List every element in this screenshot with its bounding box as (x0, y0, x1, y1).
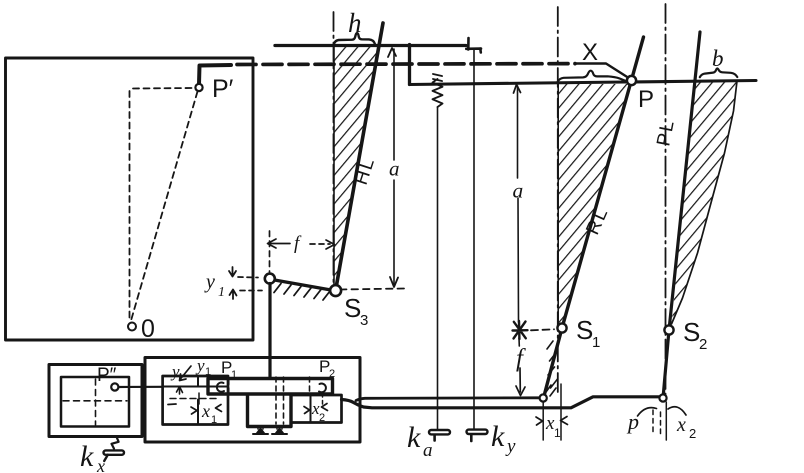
wire: upper bottom link to S1 foot (356, 398, 540, 401)
left foot (258, 427, 263, 430)
svg-text:S: S (576, 315, 593, 345)
svg-text:a: a (423, 440, 433, 461)
brace for h (334, 33, 375, 44)
P'' box inner (61, 377, 129, 427)
carriage divider (163, 376, 228, 425)
x-carriage sub-box (291, 395, 342, 423)
P'' box outer (49, 365, 142, 437)
ray line RL (544, 37, 644, 396)
y leader arrow (180, 366, 192, 381)
svg-text:P″: P″ (97, 365, 117, 386)
ray line PL (663, 32, 700, 396)
svg-text:1: 1 (554, 426, 561, 440)
svg-text:x: x (676, 414, 686, 436)
dimension f (at S3): arrows (268, 239, 335, 249)
kx knob symbol (104, 450, 125, 454)
dashed level from S3 (340, 289, 404, 290)
svg-text:k: k (407, 421, 421, 454)
dimension a (right): line (518, 86, 520, 346)
dashed stem guides (276, 377, 310, 424)
mechanism outer box (145, 358, 360, 443)
dimension a (left): arrows (388, 48, 398, 287)
wire: vertical from pivot down to carriage (268, 284, 271, 379)
hatched wedge of HL (334, 47, 380, 288)
svg-text:P: P (638, 86, 654, 113)
brace for b (700, 68, 738, 77)
x1 arrows in carriage (191, 405, 222, 415)
svg-text:0: 0 (141, 315, 155, 343)
x2 arrows in carriage (304, 404, 328, 414)
sliver hatch below S1 (546, 341, 558, 396)
node S3 (330, 285, 341, 296)
svg-text:1: 1 (592, 334, 600, 351)
P'' dashed cross (63, 379, 127, 425)
svg-text:1: 1 (231, 369, 237, 381)
dashed drop above pivot (269, 231, 271, 272)
wire: link to kx (112, 438, 119, 449)
hatched wedge of PL (672, 81, 738, 325)
svg-text:P′: P′ (212, 75, 234, 103)
wire: datum step (408, 45, 411, 85)
ground hatch under link (274, 284, 330, 301)
svg-text:X: X (582, 39, 598, 66)
dashed at left curl (228, 381, 230, 394)
svg-text:3: 3 (360, 312, 368, 329)
hatched wedge of RL (558, 84, 631, 328)
dashed tie to S1 (531, 329, 554, 330)
svg-text:1: 1 (211, 414, 217, 426)
wire: dashed slant P' to O (131, 92, 198, 321)
flag symbol at top of ky rod (466, 38, 481, 53)
svg-text:y: y (170, 362, 180, 381)
svg-text:S: S (344, 293, 361, 323)
dimension a (left): line (393, 49, 395, 285)
y1 ticks (229, 267, 237, 299)
wire: thick dashed horizon line (237, 62, 575, 67)
link pivot to S3 (275, 280, 332, 290)
node S1 (557, 323, 566, 332)
pivot C1 (265, 274, 275, 284)
svg-text:b: b (712, 46, 724, 71)
svg-text:2: 2 (689, 426, 696, 441)
p arc (638, 408, 657, 416)
svg-text:x: x (96, 456, 105, 473)
x2 arc (668, 407, 686, 415)
node O (128, 323, 136, 331)
left picture-plane rectangle (6, 58, 254, 340)
channel rail (208, 379, 333, 395)
right foot (277, 427, 282, 430)
curl C left (217, 383, 224, 392)
wire: P'' to carriage (119, 386, 163, 388)
y-carriage sub-box (163, 376, 228, 425)
svg-text:x: x (201, 401, 210, 421)
svg-text:y: y (204, 271, 215, 293)
node S2 foot (659, 394, 666, 401)
dimension f (right): line + arrow (516, 368, 525, 396)
brace for X (558, 71, 625, 82)
lens line HL (336, 23, 383, 288)
wire: thin bend into P (575, 64, 628, 78)
svg-text:S: S (683, 317, 700, 347)
node P' (195, 84, 202, 91)
dash-dot axis 2 (RL) (557, 7, 559, 392)
dimension a (right): arrows + asterisk (514, 85, 521, 94)
svg-text:1: 1 (205, 366, 211, 378)
svg-text:2: 2 (699, 336, 707, 353)
ky disc symbol (467, 430, 488, 434)
svg-text:h: h (348, 8, 362, 38)
wire: dashed vertical through O (129, 91, 131, 320)
svg-text:y: y (505, 436, 516, 457)
dash-dot axis 1 (HL) (333, 12, 335, 286)
svg-text:y: y (195, 356, 205, 375)
svg-text:k: k (491, 420, 505, 453)
spring on ka rod (433, 74, 443, 107)
node P (627, 76, 636, 85)
svg-text:2: 2 (329, 368, 335, 380)
wire: dashed projector horizontal to P' (133, 87, 194, 90)
wire: ka rod (437, 107, 439, 430)
T slider (248, 395, 292, 427)
wire: right datum line B (410, 81, 757, 85)
node P'' (111, 383, 118, 390)
svg-text:k: k (80, 440, 94, 473)
carriage dashed guide (170, 398, 220, 400)
p / x2 gauge lines (665, 402, 667, 440)
wire: thick bent lead from P' (199, 65, 231, 84)
wire: lower bottom link to S2 foot (342, 397, 660, 408)
svg-text:p: p (626, 409, 639, 434)
x1 arrows (536, 417, 568, 426)
node S1 foot (540, 394, 547, 401)
svg-text:a: a (389, 157, 400, 181)
svg-text:1: 1 (218, 285, 225, 300)
ka disc symbol (429, 430, 450, 434)
svg-text:a: a (513, 179, 524, 203)
curl C right (319, 384, 326, 393)
node S2 (664, 325, 673, 334)
wire: ky rod (473, 50, 475, 430)
svg-text:2: 2 (319, 412, 325, 424)
dashed below right curl (322, 393, 324, 404)
small up arrow (177, 387, 183, 395)
dash-dot axis 3 (PL) (665, 4, 667, 396)
x1 gauge lines (543, 384, 561, 440)
wire: top datum line A (275, 44, 466, 47)
